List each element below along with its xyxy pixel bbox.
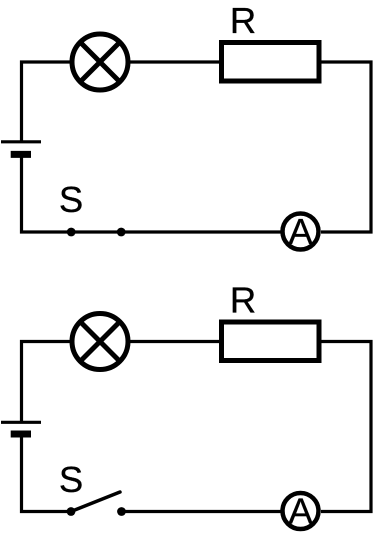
wire: ammeter to open switch right contact (bottom circuit) xyxy=(122,510,282,513)
svg-text:A: A xyxy=(288,491,313,532)
switch S contact dot right (open) xyxy=(117,507,126,516)
svg-text:R: R xyxy=(230,280,256,321)
switch S contact dot left (open) xyxy=(67,507,76,516)
ammeter A1 xyxy=(283,214,319,250)
lamp L1 (circle with X) xyxy=(72,34,128,90)
battery B1 short plate (negative) xyxy=(11,151,31,158)
battery B2 long plate (positive) xyxy=(1,421,41,424)
wire: ammeter to bottom-left corner up to battery bottom (through closed switch) xyxy=(22,158,282,233)
wire: battery top to top-left corner to lamp xyxy=(22,62,72,142)
battery B2 short plate (negative) xyxy=(11,431,31,438)
switch S contact dot right (closed) xyxy=(117,228,126,237)
svg-text:S: S xyxy=(59,459,83,500)
wire: lamp to resistor xyxy=(129,60,221,63)
svg-text:S: S xyxy=(59,179,83,220)
wire: resistor to top-right corner down to ammeter (bottom circuit) xyxy=(319,342,371,512)
svg-text:A: A xyxy=(288,211,313,252)
wire: lamp to resistor (bottom circuit) xyxy=(129,340,221,343)
wire: battery top to top-left corner to lamp (bottom circuit) xyxy=(22,342,72,422)
resistor R xyxy=(222,43,320,82)
wire: resistor to top-right corner down to ammeter xyxy=(319,62,371,232)
switch S contact dot left (closed) xyxy=(67,228,76,237)
switch S open lever xyxy=(71,492,120,512)
wire: open switch left contact to bottom-left corner up to battery (bottom circuit) xyxy=(22,437,72,512)
svg-text:R: R xyxy=(230,0,256,41)
lamp L2 (circle with X) xyxy=(72,314,128,370)
resistor R (bottom) xyxy=(222,322,320,361)
ammeter A2 xyxy=(283,493,319,529)
battery B1 long plate (positive) xyxy=(1,140,41,143)
